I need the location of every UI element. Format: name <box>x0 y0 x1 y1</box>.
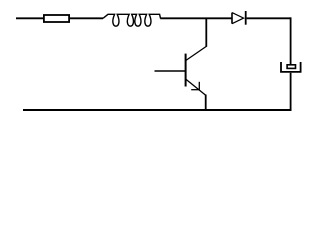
wire capacitor to bottom rail <box>290 73 292 110</box>
wire right vertical to capacitor <box>290 17 292 64</box>
capacitor C1 (electrolytic) <box>281 62 301 72</box>
wire bottom rail <box>23 109 292 111</box>
diode D1 <box>232 11 246 25</box>
wire diode cathode to top-right corner <box>247 17 292 19</box>
resistor R1 <box>44 15 69 22</box>
node junction collector/top rail <box>205 18 207 47</box>
transistor Q1 base wire <box>155 70 186 72</box>
wire resistor to inductor <box>70 17 104 19</box>
wire inductor to diode anode (top rail) <box>160 17 232 19</box>
wire emitter to bottom rail <box>205 95 207 111</box>
transistor Q1 <box>186 46 207 95</box>
wire top-left input <box>16 17 44 19</box>
inductor L1 <box>103 14 160 26</box>
